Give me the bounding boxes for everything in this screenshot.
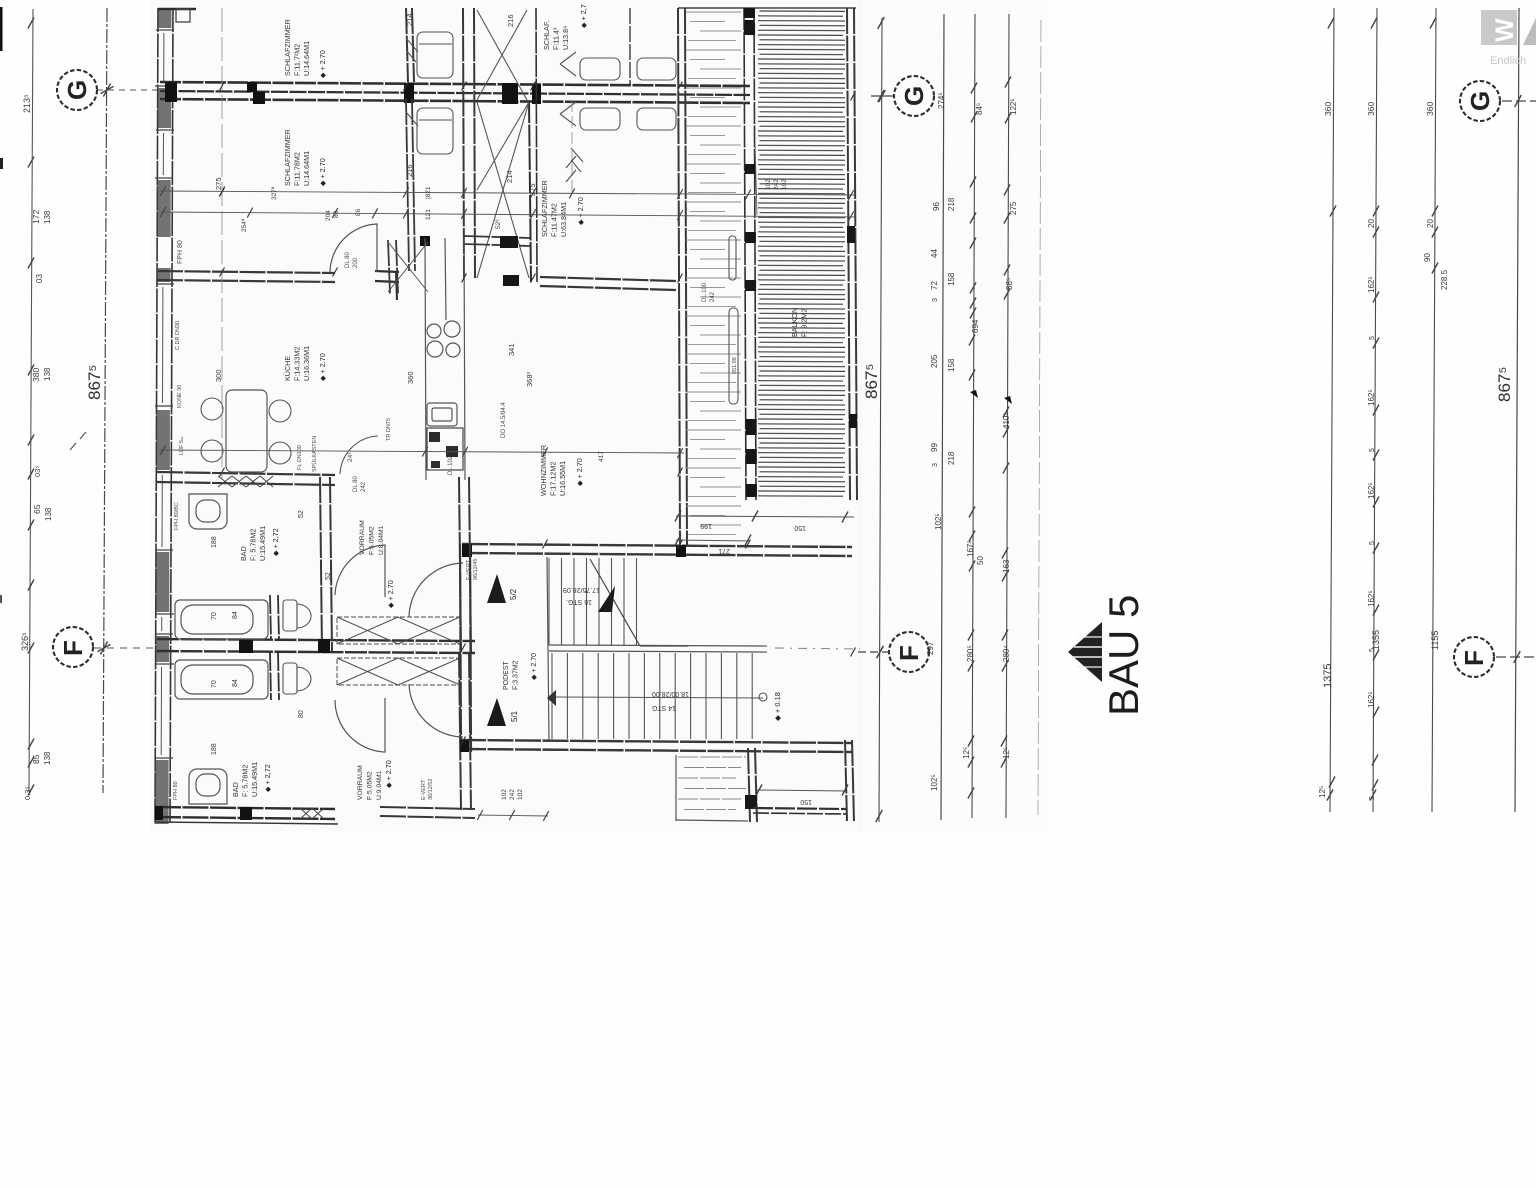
balcony label <box>790 308 809 337</box>
svg-text:867⁵: 867⁵ <box>1495 367 1514 402</box>
svg-text:20: 20 <box>1367 219 1376 228</box>
dim chain upper y214 <box>160 207 855 232</box>
balcony bottom dim line <box>675 511 854 532</box>
vorraum right wall x460 <box>459 477 461 652</box>
svg-text:5: 5 <box>1369 336 1376 340</box>
middle dim line E faint <box>1038 20 1041 815</box>
room label SCHLAFZIMMER 1b <box>283 129 311 186</box>
right dim tick marks <box>1327 18 1438 801</box>
bath1 right wall <box>320 477 322 652</box>
dashed leader mark left <box>70 432 86 450</box>
right grid line R4 <box>1515 8 1519 812</box>
stair text upper reversed <box>563 586 600 605</box>
apartment marker 5/2 <box>487 574 506 603</box>
svg-text:5: 5 <box>1369 448 1376 452</box>
svg-text:F: F <box>1459 650 1489 666</box>
beds narrow room lower <box>406 108 453 154</box>
svg-text:138: 138 <box>43 210 52 224</box>
grid axis F tick left <box>98 644 111 651</box>
dim chain bottom y816 <box>477 789 549 821</box>
svg-text:W: W <box>1491 18 1519 42</box>
dim extension x222 <box>221 8 223 480</box>
kitchen duct labels <box>297 418 392 492</box>
grid bubble F right <box>1454 637 1536 677</box>
wall kitchen bottom <box>157 472 335 487</box>
overall dimension 8675 middle <box>862 364 881 399</box>
stairwell left wall <box>460 544 461 752</box>
door label DL80/200 <box>345 252 359 268</box>
outer wall left faces <box>155 8 173 824</box>
svg-text:162⁵: 162⁵ <box>1367 590 1376 607</box>
vorraum2 bottom wall <box>380 807 475 818</box>
dim numbers column x215 <box>214 177 223 382</box>
middle dim line D <box>1006 14 1009 818</box>
svg-text:90: 90 <box>1423 253 1432 262</box>
balcony sliding door rails <box>729 236 738 404</box>
room label BAD 2 <box>231 762 259 797</box>
BAU 5 title <box>1100 595 1147 716</box>
svg-text:162⁵: 162⁵ <box>1367 482 1376 499</box>
watermark triangle <box>1523 18 1536 45</box>
closet wall bedroom 2a <box>629 8 631 84</box>
svg-text:65: 65 <box>32 504 42 514</box>
stair label PODEST <box>503 660 520 690</box>
dim chain upper y193 <box>160 186 855 220</box>
level label +0.18 <box>773 692 782 721</box>
svg-text:138: 138 <box>43 367 52 381</box>
outer wall top cap <box>158 9 196 22</box>
svg-text:5: 5 <box>1369 541 1376 545</box>
svg-text:G: G <box>1465 91 1495 111</box>
stairwell bottom wall <box>460 740 852 752</box>
stair landing podium <box>547 557 549 740</box>
grid bubble F middle <box>858 632 929 672</box>
outer wall left piers <box>155 8 172 824</box>
dining chairs <box>201 398 291 464</box>
kitchen appliance dark <box>429 432 458 468</box>
small shaft KS near kitchen <box>388 236 430 294</box>
junction tick marks plan <box>220 82 856 746</box>
grid bubble F left <box>53 627 93 667</box>
svg-text:F: F <box>58 640 88 656</box>
stair text lower reversed <box>652 690 689 711</box>
stair mid rails <box>549 645 767 646</box>
svg-text:228.5: 228.5 <box>1440 269 1449 290</box>
right dim line R3 <box>1432 8 1436 812</box>
grid axis G tick left <box>101 86 114 93</box>
svg-text:360: 360 <box>1323 102 1333 116</box>
grid bubble G middle <box>871 76 934 116</box>
door arc hall lower <box>409 684 463 737</box>
svg-text:162⁵: 162⁵ <box>1367 389 1376 406</box>
door arc bedroom2 <box>330 224 377 272</box>
middle dimension numbers <box>926 92 1018 791</box>
shaft wall x528 <box>529 101 531 282</box>
svg-text:12⁵: 12⁵ <box>1318 786 1327 798</box>
wardrobe niche crosses <box>337 617 460 685</box>
bedroom divider wall x404 <box>406 8 408 82</box>
svg-text:0,3⁵: 0,3⁵ <box>23 786 32 800</box>
svg-text:138: 138 <box>44 507 53 521</box>
sink 1 <box>189 494 227 529</box>
room label SCHLAFZIMMER 2a <box>542 20 570 50</box>
stairwell top wall <box>462 544 852 557</box>
middle dim line C <box>972 14 975 818</box>
svg-text:213⁵: 213⁵ <box>22 94 32 113</box>
bath dimension labels <box>211 510 332 755</box>
axis G connector dashes left <box>97 89 157 91</box>
stair direction line lower <box>556 697 763 698</box>
room label KUECHE <box>283 346 311 381</box>
overall dimension 8675 right <box>1495 367 1514 402</box>
beds narrow room upper <box>406 32 453 78</box>
middle dim tick marks <box>876 17 1012 822</box>
scan tone overlay <box>150 0 862 832</box>
svg-text:360: 360 <box>1425 102 1435 116</box>
door arc hall upper <box>409 563 463 617</box>
vorraum2 right wall <box>459 652 461 810</box>
dim numbers column x409 <box>405 13 415 384</box>
outer wall left window glazing <box>155 30 174 758</box>
svg-text:Endlich: Endlich <box>1490 55 1526 67</box>
svg-text:380: 380 <box>31 368 41 382</box>
svg-text:G: G <box>62 80 92 100</box>
right dimension numbers <box>1318 102 1449 800</box>
overall dimension 8675 left <box>85 365 104 400</box>
svg-text:20: 20 <box>1426 219 1435 228</box>
party wall junction blocks <box>165 20 755 104</box>
label DO cornice <box>501 402 507 438</box>
balcony hatch light zone <box>686 12 741 535</box>
balcony decking hatch dense <box>758 11 845 496</box>
svg-text:326⁵: 326⁵ <box>20 632 30 651</box>
apartment marker 5/1 <box>487 698 506 726</box>
dim numbers column x510 <box>505 14 534 387</box>
room label BAD 1 <box>239 526 267 561</box>
grid line left (through G and F) <box>103 8 107 793</box>
balcony lower dim line2 <box>675 535 751 555</box>
bathtub 2 <box>175 660 268 699</box>
svg-text:162⁵: 162⁵ <box>1367 691 1376 708</box>
room label VORRAUM 1 <box>359 520 385 555</box>
shaft wall x463 <box>463 8 475 278</box>
entrance hatch below stairs <box>676 755 748 821</box>
middle grid line B <box>941 14 944 820</box>
svg-text:85: 85 <box>31 754 41 764</box>
stair upper flight treads <box>549 558 637 645</box>
middle dim line A <box>879 18 882 822</box>
axis F dash through corridor <box>775 648 860 649</box>
beds room lower pair <box>560 102 676 172</box>
grid bubble G left <box>57 70 97 110</box>
svg-text:03⁵: 03⁵ <box>33 466 42 477</box>
balcony right wall <box>847 8 857 500</box>
svg-text:1155: 1155 <box>1430 631 1440 650</box>
dim numbers column x530 <box>528 183 537 196</box>
bad walls inner details <box>270 595 279 700</box>
shaft cross bracing <box>477 10 529 278</box>
toilet 1 <box>283 600 311 631</box>
bathtub 1 <box>175 600 268 639</box>
sink 2 <box>189 769 227 804</box>
right dim line R1 <box>1330 8 1334 812</box>
svg-text:03: 03 <box>35 274 44 283</box>
stair lower flight treads <box>552 653 752 739</box>
entry dim line 150 <box>756 785 848 806</box>
stair upper cut line <box>590 559 640 646</box>
wall living top <box>540 277 676 281</box>
room label VORRAUM 2 <box>357 765 383 800</box>
door labels hall <box>421 455 479 800</box>
wall kitchen top with door jog <box>157 271 399 300</box>
balcony door label <box>702 282 716 302</box>
watermark logo square W <box>1481 10 1519 45</box>
svg-text:138: 138 <box>43 751 52 765</box>
kitchen counter <box>425 238 465 480</box>
balcony divider wall with piers <box>744 8 757 500</box>
svg-text:BAU 5: BAU 5 <box>1100 595 1147 716</box>
right dim line R2 <box>1373 8 1377 812</box>
svg-text:172: 172 <box>31 210 41 224</box>
dim chain stair right vertical <box>755 144 788 215</box>
dim chain mid y452 <box>160 445 684 462</box>
party wall axis F <box>157 639 475 653</box>
svg-text:360: 360 <box>1366 102 1376 116</box>
beds room upper pair <box>560 52 676 80</box>
room label SCHLAFZIMMER 2b <box>540 180 568 237</box>
svg-text:867⁵: 867⁵ <box>85 365 104 400</box>
entry lower wall dark <box>753 808 847 809</box>
svg-text:1375: 1375 <box>1322 664 1334 688</box>
party wall axis G <box>160 82 750 103</box>
svg-text:162⁵: 162⁵ <box>1367 276 1376 293</box>
balcony left wall <box>678 8 680 546</box>
wall below stairs right <box>745 748 757 822</box>
room label SCHLAFZIMMER 1a <box>283 19 311 76</box>
grid bubble G right <box>1460 81 1536 121</box>
dining table <box>226 390 267 472</box>
door arc vorraum1-bad1 <box>335 545 385 597</box>
svg-text:1355: 1355 <box>1371 630 1381 650</box>
dim extension x572 <box>571 100 573 195</box>
left dimension numbers <box>20 94 53 800</box>
north arrow triangle <box>1068 622 1102 682</box>
entry right wall <box>845 740 854 822</box>
scan edge marks left border <box>0 7 3 603</box>
door arc kitchen-vorraum <box>340 436 378 474</box>
balcony top edge <box>678 7 856 9</box>
left wall fitting labels <box>173 240 185 800</box>
kitchen stove burners <box>427 321 460 357</box>
bath2 bottom wall <box>155 806 338 824</box>
door arc vorraum2-bad2 <box>335 698 385 752</box>
toilet 2 <box>283 663 311 694</box>
left dimension line with ticks <box>28 9 34 796</box>
axis F connector dashes left <box>94 647 157 649</box>
shaft bottom wall <box>464 236 530 238</box>
stair arrow triangle in flight <box>598 586 615 612</box>
room label WOHNZIMMER <box>539 445 567 496</box>
